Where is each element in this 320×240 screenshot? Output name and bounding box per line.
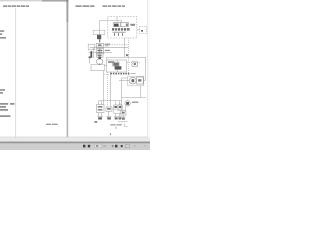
right valve a mark: [115, 106, 117, 108]
wire: drop to drain tank: [122, 115, 124, 117]
motor circle X blob: [131, 79, 134, 82]
bottom valve right a: [114, 105, 118, 109]
wire: left drop to reservoir: [93, 48, 95, 58]
left page left-edge text block 2: [0, 89, 5, 93]
toolbar separator: [112, 145, 114, 147]
stub to top dashed edge: [116, 17, 118, 23]
wire: dashed line y44.8 with labels: [104, 44, 128, 46]
right page right edge line: [146, 0, 149, 137]
directional valve block: [96, 49, 103, 54]
aux valve under directional: [97, 54, 104, 57]
wire: dashed y62.6: [127, 62, 140, 64]
reservoir box: [91, 64, 105, 70]
pump suction stub mid: [99, 47, 101, 59]
piston dark blob under cylinder: [97, 35, 101, 39]
drain valve box mark: [122, 112, 125, 114]
check valve block on supply line: [96, 43, 103, 47]
wire: into motor assembly: [119, 80, 129, 82]
toolbar page-number field: [95, 144, 101, 148]
pages bottom edge: [0, 136, 148, 139]
wire from enclosure to right box: [137, 29, 140, 31]
top dashed enclosure box: [108, 17, 137, 38]
label marks right of supply y44-51: [105, 44, 110, 45]
wire: manifold stub 3: [115, 101, 117, 106]
dot inside right dashed box: [141, 30, 143, 32]
toolbar icon: fit width: [133, 145, 136, 147]
tank T1 top line: [97, 116, 103, 118]
left page top scanned gray edge: [0, 0, 42, 1]
tank hatch mid: [107, 117, 111, 119]
tank hatch left: [98, 117, 102, 119]
bottom frame line segment: [118, 121, 127, 123]
toolbar: [83, 144, 146, 148]
tank T3 top line: [114, 116, 122, 118]
arrow mark right part enclosure: [130, 24, 135, 26]
mark at corner above big box: [126, 54, 128, 56]
valve inside big box: [113, 62, 119, 66]
wire: long bottom horizontal y97.6: [122, 97, 146, 99]
wire: long line to right edge, corner down: [107, 57, 146, 80]
wire: vertical drop x103.6: [103, 71, 105, 105]
corner mark bottom: [125, 124, 128, 127]
left page header title: [3, 6, 29, 7]
mid valve mark: [107, 108, 111, 109]
toolbar page-number text: [96, 145, 98, 147]
bottom valve mid: [106, 107, 112, 111]
bottom valve left stack: [97, 105, 105, 113]
left stub tip dark: [89, 56, 91, 58]
wire: tank drop 2: [101, 113, 103, 117]
toolbar icon: zoom out: [115, 145, 117, 148]
bottom small mark left of tank: [94, 121, 97, 123]
left page left-edge text block 1: [0, 30, 6, 38]
toolbar page-count text: [103, 145, 106, 147]
wire: manifold stub 1: [98, 101, 100, 105]
drain tank hatch: [122, 118, 125, 120]
wire: vertical x121.5: [121, 78, 123, 111]
wire: tank drop 1: [98, 113, 100, 117]
drain valve box: [121, 111, 126, 115]
toolbar zoom-level button: [125, 144, 129, 147]
wire: horizontal through supply y47.7: [90, 47, 129, 49]
wire: top-left corner supply line: [100, 21, 122, 42]
motor box inner mark: [138, 79, 141, 81]
cylinder body top-left: [93, 30, 105, 34]
check valve internal mark: [98, 44, 101, 46]
toolbar icon: next page: [88, 145, 90, 148]
wire: corner into motor line: [122, 77, 128, 79]
rod line: [99, 39, 100, 42]
pilot valve box 2 in enclosure: [121, 22, 128, 26]
left page left-edge paragraph block: [0, 103, 15, 117]
left branch box: [88, 44, 94, 50]
left valve stack upper mark: [98, 106, 103, 107]
wire: solid vertical x124.5: [124, 38, 126, 57]
bottom toolbar: [0, 140, 150, 143]
motor assembly circle: [129, 77, 136, 84]
right valve b mark: [119, 106, 121, 108]
power unit big box: [107, 60, 127, 72]
right page header left: HYDRAULIC SCHEMATIC: [76, 6, 95, 7]
pump suction stub left: [89, 57, 91, 64]
tank T2 top line: [106, 116, 111, 118]
vertical label text left column: [90, 51, 92, 58]
wire: right edge into box: [143, 80, 145, 82]
motor assembly box: [137, 77, 144, 84]
enclosure lower marks: [113, 31, 126, 34]
drain tank top line: [121, 116, 126, 118]
toolbar icon: more options: [144, 145, 146, 147]
left page inner frame line: [14, 8, 17, 138]
pilot valve box 1 in enclosure: [113, 23, 120, 27]
viewer background under pages: [0, 0, 150, 150]
toolbar icon: zoom in: [121, 145, 123, 147]
hatch bar inside enclosure (dashes): [112, 28, 114, 31]
wire: manifold stub 2: [101, 101, 103, 105]
text inside big box: [108, 61, 114, 62]
page gap shadow line between left and right page: [67, 0, 69, 137]
manifold top line: [99, 100, 122, 102]
wire: dashed under big box: [104, 74, 110, 76]
wire: horizontal y52.6: [89, 52, 112, 54]
bottom valve right lower row: [114, 109, 123, 113]
dark elements: [89, 24, 143, 123]
toolbar icon: previous page: [83, 145, 85, 148]
wire: dashed pilot line vertical x128.5: [128, 38, 130, 76]
wire: tank drop 5: [119, 113, 121, 116]
wire: tank drop 3: [108, 111, 110, 116]
pilot box1 dark interior: [114, 24, 119, 27]
right page header right: model: [103, 6, 125, 7]
pump tip dark: [98, 57, 101, 59]
right page page-number: [110, 133, 111, 135]
dark valve low in big box: [115, 66, 122, 69]
directional valve internal marks: [97, 50, 102, 51]
pump circle: [97, 59, 103, 65]
right-of-page background strip: [148, 0, 150, 137]
aux valve inner mark: [98, 55, 102, 57]
right page footer text: [110, 124, 121, 129]
wire: vertical x110.6: [110, 72, 112, 107]
bottom valve right b: [118, 105, 122, 109]
tank hatch right: [115, 117, 118, 119]
dash-dot line under big box: [110, 73, 112, 75]
drain valve circle: [125, 101, 130, 106]
left valve stack lower mark: [98, 109, 103, 110]
motor assembly outer box: [128, 76, 144, 86]
wire: tick at x121.5 y104: [119, 103, 122, 105]
small valve on dashed line: [132, 62, 138, 66]
pump-reservoir junction dot: [99, 64, 100, 65]
wire: valve drop inside box: [117, 60, 119, 72]
drain circle X blob: [126, 102, 129, 105]
right small dashed box: [140, 26, 147, 33]
left page footer doc number: [46, 124, 58, 125]
small valve X mark: [134, 63, 136, 65]
wire: drain circle down: [125, 106, 127, 110]
pilot box2 interior mark: [126, 24, 128, 27]
wire: tank drop 4: [115, 113, 117, 116]
wire: tee line under drain: [117, 110, 126, 112]
wire: vertical drop x140.6: [140, 86, 142, 98]
wire: dashed vertical x107.6: [107, 72, 109, 107]
wire reservoir to big box: [105, 65, 107, 67]
motor text label: [132, 102, 138, 103]
wire: manifold stub 4: [119, 101, 121, 106]
